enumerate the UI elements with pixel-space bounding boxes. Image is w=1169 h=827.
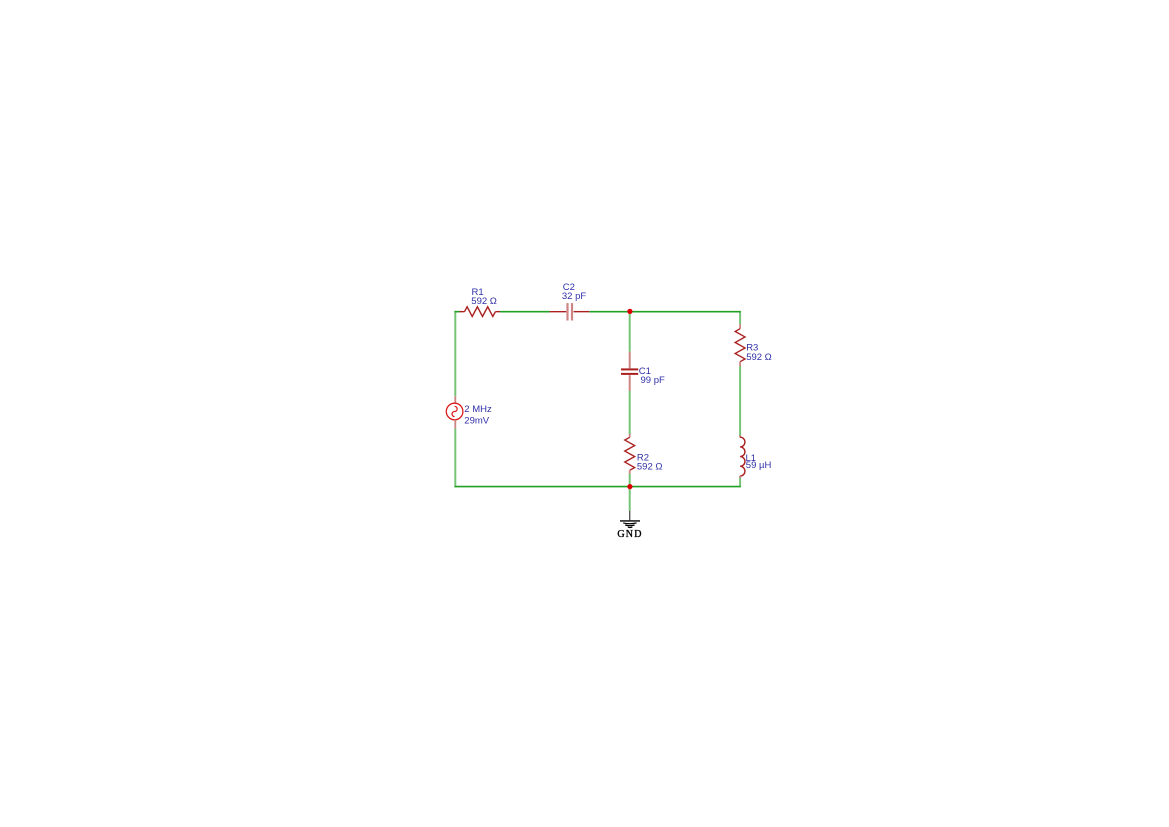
wire top R1 to C2 <box>500 311 550 313</box>
capacitor C2 <box>550 303 590 320</box>
svg-text:59 µH: 59 µH <box>746 460 772 471</box>
svg-text:29mV: 29mV <box>464 415 489 426</box>
svg-text:592 Ω: 592 Ω <box>637 461 663 472</box>
ground lead <box>629 511 631 521</box>
svg-text:99 pF: 99 pF <box>641 375 665 386</box>
svg-text:2 MHz: 2 MHz <box>464 404 492 415</box>
wire middle vertical R2 to bottom node <box>629 474 631 487</box>
wire ground stub <box>629 487 631 511</box>
wire left vertical upper <box>454 311 456 396</box>
wire middle vertical node to C1 <box>629 312 631 352</box>
resistor R1 <box>460 307 501 317</box>
wire top node to right corner <box>630 311 741 313</box>
capacitor C1 <box>621 352 638 391</box>
wire right vertical L1 to bottom corner <box>739 476 741 487</box>
wire right vertical top to R3 <box>739 311 741 325</box>
ground symbol <box>620 521 640 528</box>
wire left vertical lower <box>454 429 456 488</box>
wire bottom horizontal <box>455 486 741 488</box>
svg-text:592 Ω: 592 Ω <box>746 352 772 363</box>
inductor L1 <box>740 435 745 478</box>
node junction dot bottom <box>627 484 632 489</box>
wire top C2 to node <box>589 311 630 313</box>
wire middle vertical C1 to R2 <box>629 391 631 435</box>
voltage source V1 <box>446 396 463 428</box>
resistor R2 <box>625 434 635 474</box>
wire right vertical R3 to L1 <box>739 366 741 437</box>
node junction dot top <box>627 309 632 314</box>
svg-text:592 Ω: 592 Ω <box>471 296 497 307</box>
resistor R3 <box>735 324 745 366</box>
svg-text:GND: GND <box>617 529 642 540</box>
svg-text:32 pF: 32 pF <box>562 291 586 302</box>
wire top-left stub <box>455 311 460 313</box>
